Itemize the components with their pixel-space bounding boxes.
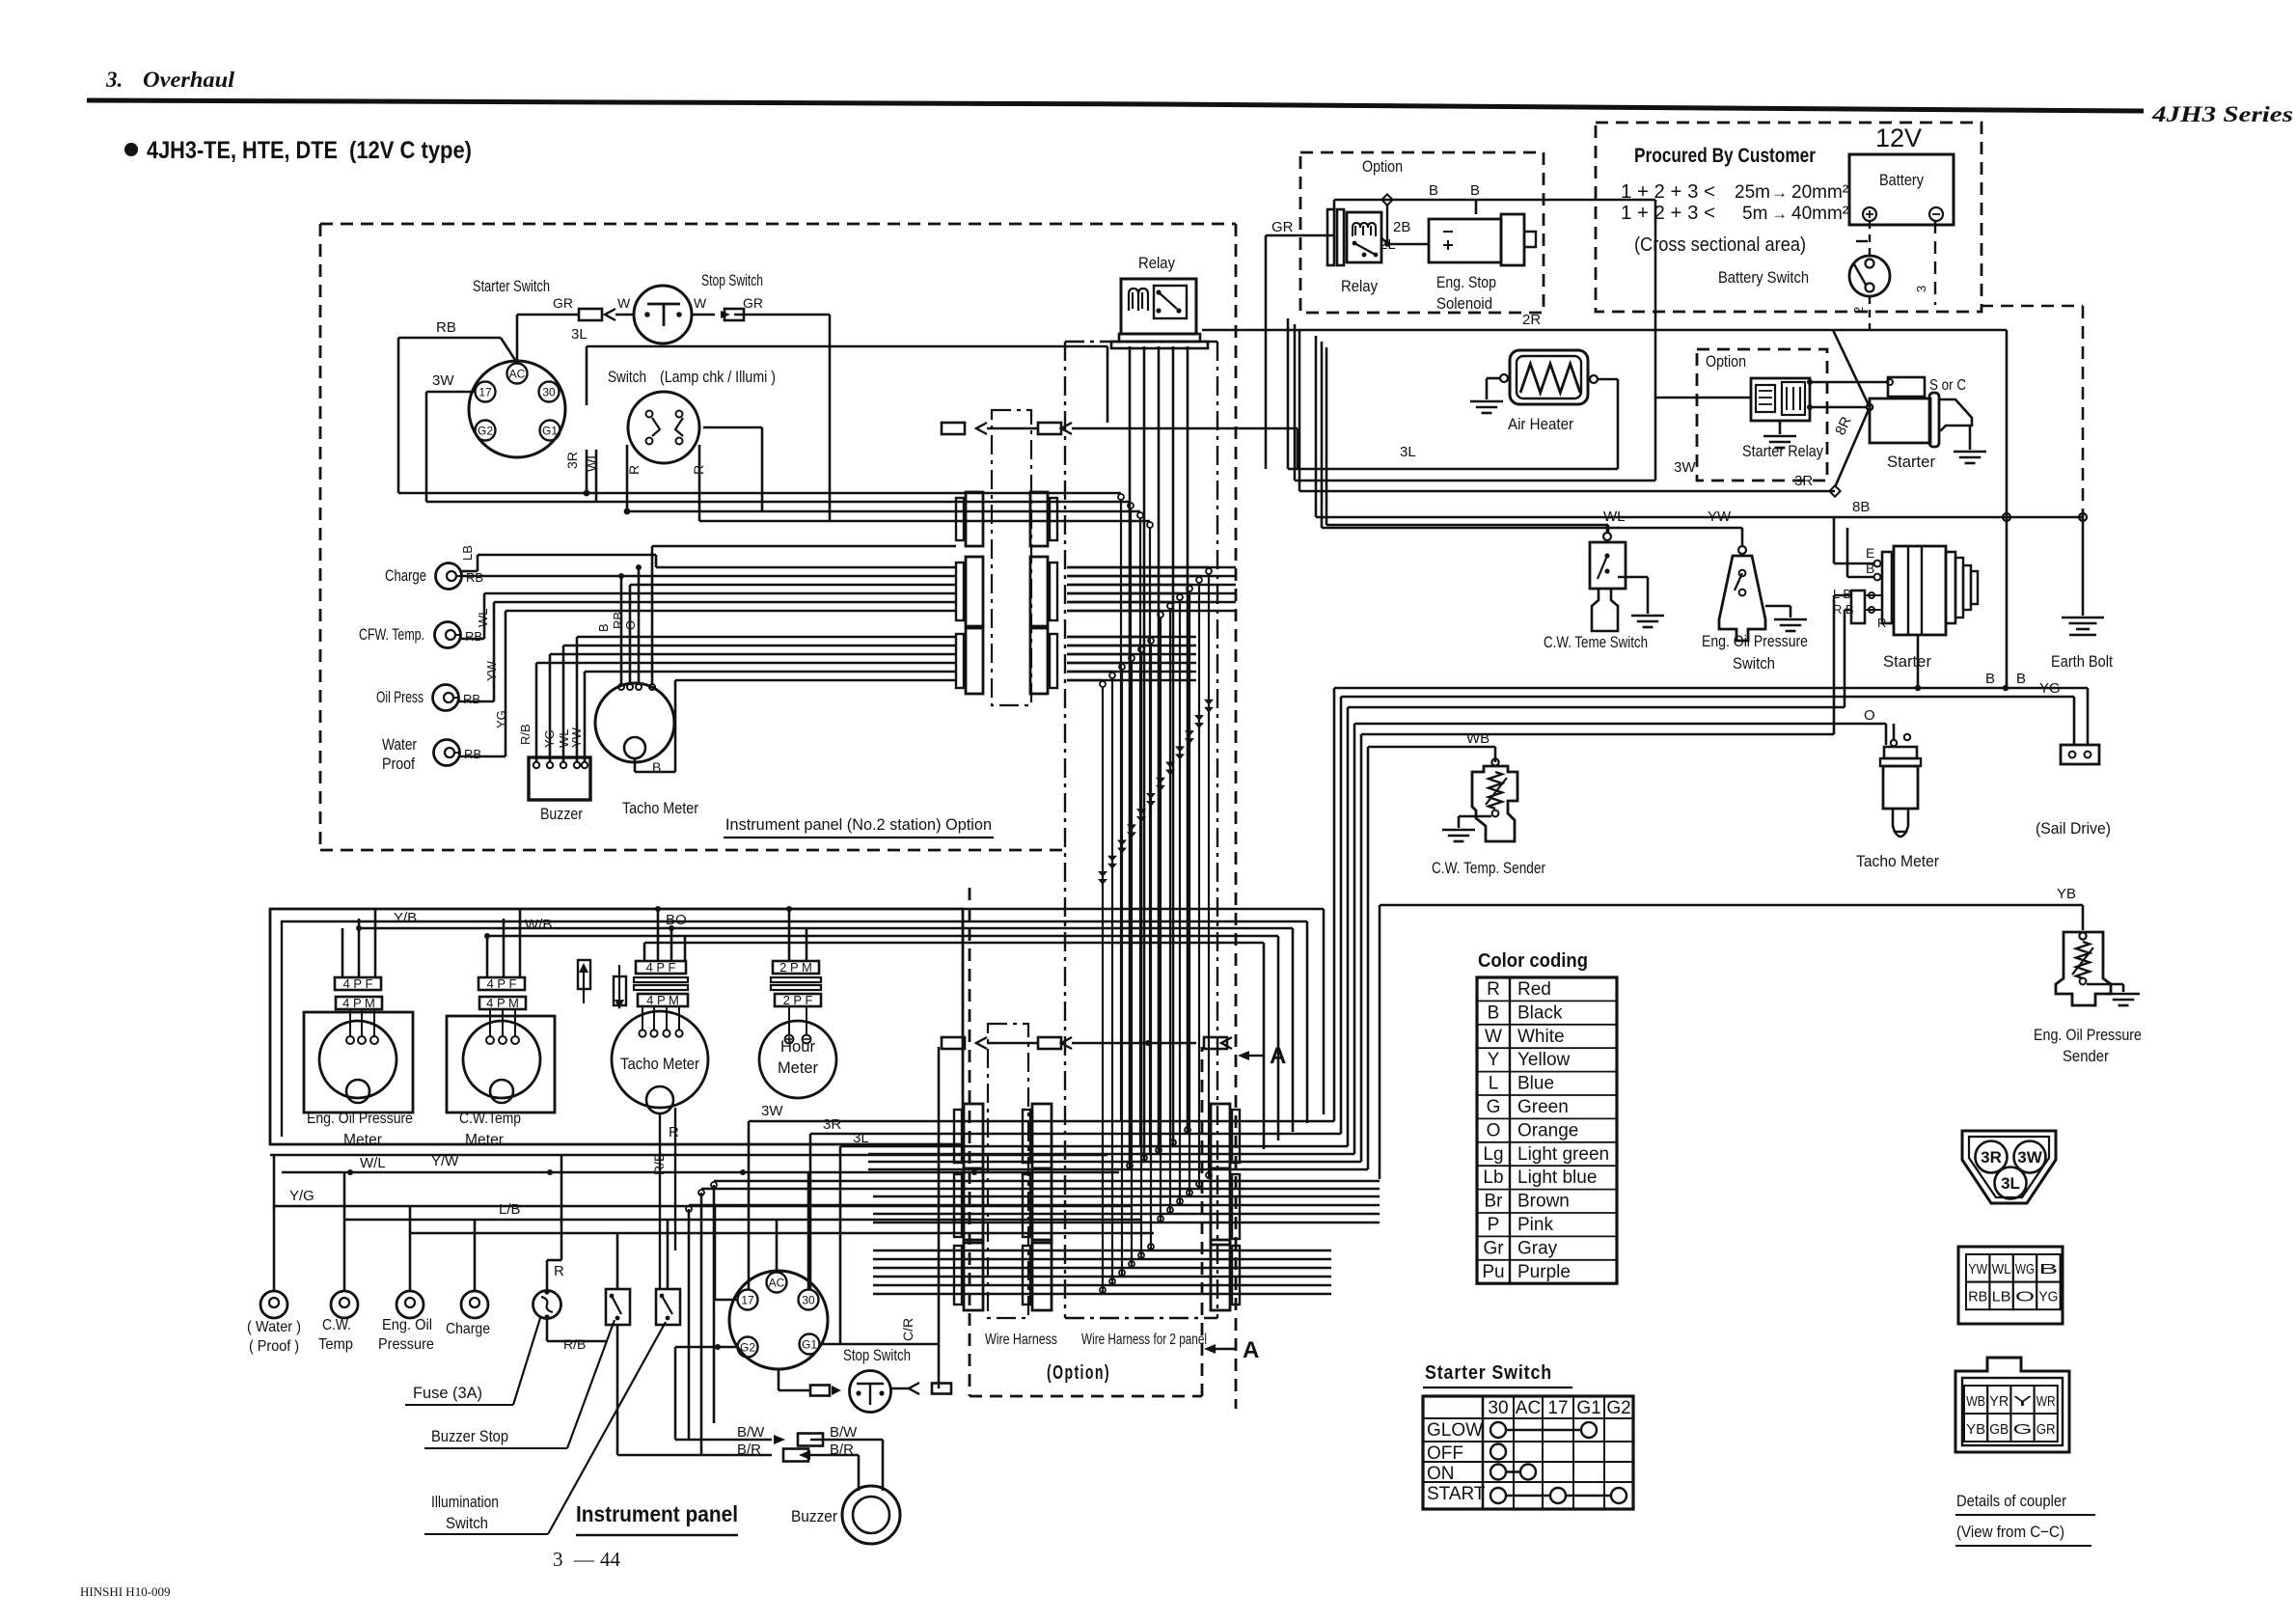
svg-text:3L: 3L [571,326,588,343]
svg-text:Illumination: Illumination [431,1493,499,1511]
svg-text:Black: Black [1517,1003,1563,1023]
svg-text:C/R: C/R [900,1318,916,1341]
svg-text:44: 44 [600,1548,621,1571]
svg-text:B: B [1470,182,1480,199]
svg-text:—: — [573,1548,595,1571]
svg-text:Red: Red [1517,979,1551,1000]
svg-text:Eng. Oil Pressure: Eng. Oil Pressure [2034,1026,2142,1044]
svg-text:A: A [1243,1337,1259,1363]
svg-text:Starter Switch: Starter Switch [473,277,550,295]
svg-text:B: B [596,623,611,632]
svg-text:4 P F: 4 P F [646,960,676,975]
svg-text:3R: 3R [823,1116,841,1133]
svg-text:GLOW: GLOW [1427,1420,1483,1441]
svg-text:Relay: Relay [1138,254,1175,272]
svg-text:20mm²: 20mm² [1791,182,1848,203]
svg-text:Earth Bolt: Earth Bolt [2051,652,2113,671]
svg-text:Instrument panel (No.2 statio: Instrument panel (No.2 station) Option [725,815,992,834]
svg-text:Pu: Pu [1482,1262,1504,1282]
svg-text:P: P [1488,1215,1500,1235]
svg-text:W: W [1485,1027,1502,1047]
svg-text:Starter: Starter [1883,652,1931,671]
svg-text:Orange: Orange [1517,1120,1578,1140]
svg-text:4JH3-TE, HTE, DTE: 4JH3-TE, HTE, DTE [147,137,338,164]
svg-text:AC: AC [1516,1398,1541,1418]
svg-text:Eng. Oil Pressure: Eng. Oil Pressure [1702,632,1808,650]
svg-text:Wire Harness for 2 panel: Wire Harness for 2 panel [1081,1332,1207,1348]
svg-text:OFF: OFF [1427,1443,1463,1464]
svg-text:START: START [1427,1484,1486,1504]
svg-text:Y: Y [2013,1393,2033,1410]
svg-text:Eng. Oil: Eng. Oil [382,1317,432,1333]
svg-text:Buzzer: Buzzer [540,805,583,823]
svg-text:RB: RB [1968,1289,1987,1305]
svg-text:S or C: S or C [1929,377,1966,394]
svg-text:Stop Switch: Stop Switch [701,271,763,289]
svg-text:Meter: Meter [343,1132,383,1148]
svg-text:Starter Switch: Starter Switch [1425,1362,1552,1384]
svg-text:GR: GR [743,295,763,311]
svg-text:E: E [1866,545,1874,561]
svg-text:GB: GB [1989,1421,2009,1438]
svg-text:G2: G2 [1606,1398,1630,1418]
svg-text:Air Heater: Air Heater [1508,415,1573,433]
svg-text:GR: GR [553,295,573,311]
svg-text:GR: GR [1271,219,1294,235]
svg-text:4 P F: 4 P F [343,976,373,991]
svg-text:Temp: Temp [318,1336,353,1353]
svg-text:Gr: Gr [1483,1238,1504,1258]
svg-text:Meter: Meter [778,1058,818,1077]
svg-text:3: 3 [1914,286,1928,292]
svg-text:YW: YW [1968,1261,1988,1278]
svg-text:WL: WL [476,609,490,628]
svg-text:Color coding: Color coding [1478,950,1588,972]
svg-text:Overhaul: Overhaul [143,68,235,92]
svg-text:AC: AC [769,1277,785,1290]
svg-text:3L: 3L [853,1130,869,1146]
svg-text:1 + 2 + 3 <: 1 + 2 + 3 < [1621,181,1715,203]
svg-text:Blue: Blue [1517,1074,1554,1094]
svg-text:17: 17 [478,386,492,399]
svg-text:O: O [2015,1289,2035,1305]
svg-text:Battery Switch: Battery Switch [1718,268,1809,287]
svg-text:2R: 2R [1522,312,1541,328]
svg-text:B/W: B/W [830,1424,858,1441]
svg-text:2 P M: 2 P M [779,960,812,975]
svg-text:R/B: R/B [563,1336,586,1352]
svg-text:RB: RB [436,319,456,336]
svg-text:( Water ): ( Water ) [247,1319,301,1335]
svg-text:1 + 2 + 3 <: 1 + 2 + 3 < [1621,203,1715,224]
svg-text:BO: BO [666,912,687,928]
svg-text:→: → [1771,205,1788,223]
svg-text:R/B: R/B [518,724,533,745]
svg-text:5m: 5m [1742,204,1767,224]
svg-text:Instrument panel: Instrument panel [576,1501,738,1526]
svg-text:Tacho Meter: Tacho Meter [620,1055,699,1073]
svg-text:B: B [2016,671,2026,687]
svg-text:Switch: Switch [608,368,646,386]
svg-text:YG: YG [2039,680,2061,697]
svg-text:Water: Water [382,735,417,754]
svg-text:12V: 12V [1875,124,1922,152]
svg-text:C.W.Temp: C.W.Temp [459,1111,521,1127]
svg-text:YW: YW [1708,508,1732,525]
svg-text:4 P M: 4 P M [486,996,519,1010]
svg-text:C.W. Temp. Sender: C.W. Temp. Sender [1432,859,1545,877]
svg-text:Starter: Starter [1887,453,1935,471]
svg-text:WB: WB [1466,730,1490,747]
svg-text:8B: 8B [1852,499,1870,515]
svg-text:LB: LB [1992,1289,2011,1305]
svg-text:Relay: Relay [1341,277,1378,295]
svg-text:G: G [1487,1097,1501,1117]
svg-text:B: B [2038,1261,2058,1278]
svg-text:B: B [1985,671,1995,687]
svg-text:Meter: Meter [465,1132,505,1148]
svg-text:3R: 3R [1794,473,1813,489]
svg-text:4 P M: 4 P M [646,993,679,1007]
svg-text:YG: YG [2038,1289,2058,1305]
svg-text:→: → [1771,183,1788,202]
svg-text:4 P F: 4 P F [487,976,517,991]
svg-text:Oil Press: Oil Press [376,688,424,706]
svg-text:C.W.: C.W. [322,1317,351,1333]
svg-text:R: R [626,465,642,475]
svg-text:Y: Y [1488,1050,1500,1070]
svg-text:3R: 3R [1981,1148,2002,1167]
svg-text:G1: G1 [802,1338,817,1352]
svg-text:Fuse (3A): Fuse (3A) [413,1384,482,1402]
svg-text:CFW. Temp.: CFW. Temp. [359,625,424,644]
svg-text:WL: WL [1603,508,1626,525]
svg-text:O: O [1864,707,1875,724]
svg-text:Procured By Customer: Procured By Customer [1634,145,1816,167]
svg-text:YB: YB [2057,886,2076,902]
svg-text:3W: 3W [761,1103,783,1119]
svg-text:L/B: L/B [499,1201,521,1218]
svg-text:O: O [1487,1120,1501,1140]
svg-text:WL: WL [1992,1261,2011,1278]
svg-text:4JH3 Series: 4JH3 Series [2151,102,2293,126]
svg-text:G2: G2 [478,425,493,438]
svg-text:Buzzer Stop: Buzzer Stop [431,1427,508,1445]
svg-text:GR: GR [2036,1421,2056,1438]
svg-text:3L: 3L [2001,1174,2020,1193]
svg-text:25m: 25m [1735,182,1770,203]
svg-text:B: B [1488,1003,1500,1023]
svg-text:40mm²: 40mm² [1791,204,1848,224]
svg-text:HINSHI H10-009: HINSHI H10-009 [80,1584,171,1599]
svg-text:Solenoid: Solenoid [1436,294,1492,313]
svg-text:L B: L B [1833,587,1851,601]
svg-text:(12V C type): (12V C type) [349,137,472,164]
svg-text:3W: 3W [2017,1148,2042,1167]
svg-text:3: 3 [553,1548,563,1571]
svg-text:30: 30 [802,1294,815,1307]
svg-text:WG: WG [2015,1261,2035,1278]
svg-text:30: 30 [1488,1398,1508,1418]
svg-text:(Lamp chk / Illumi ): (Lamp chk / Illumi ) [660,368,776,386]
svg-text:( Proof ): ( Proof ) [249,1338,299,1355]
svg-text:WR: WR [2036,1393,2056,1410]
svg-text:B: B [1429,182,1438,199]
svg-text:RB: RB [465,629,482,644]
svg-text:Green: Green [1517,1097,1569,1117]
svg-text:R: R [1487,979,1500,1000]
svg-text:Wire Harness: Wire Harness [985,1332,1057,1348]
svg-text:Stop Switch: Stop Switch [843,1346,911,1364]
svg-text:17: 17 [741,1294,754,1307]
svg-text:Sender: Sender [2063,1047,2109,1065]
svg-text:Y/B: Y/B [394,910,417,926]
svg-text:Y/W: Y/W [431,1153,459,1169]
svg-text:W/L: W/L [360,1155,386,1171]
svg-text:Charge: Charge [385,566,426,585]
svg-text:Light blue: Light blue [1517,1168,1597,1188]
svg-text:Option: Option [1706,352,1746,371]
svg-text:WB: WB [1966,1393,1985,1410]
svg-text:White: White [1517,1027,1565,1047]
svg-text:AC: AC [509,368,526,381]
svg-text:3.: 3. [105,68,123,92]
svg-text:C.W. Teme Switch: C.W. Teme Switch [1544,633,1648,651]
svg-text:Light green: Light green [1517,1144,1609,1165]
svg-text:Br: Br [1485,1192,1504,1212]
svg-text:(View from C−C): (View from C−C) [1956,1523,2064,1541]
svg-text:W: W [617,295,631,311]
svg-text:3W: 3W [432,372,454,389]
svg-text:3W: 3W [1674,459,1696,476]
svg-text:4 P M: 4 P M [342,996,375,1010]
svg-text:Option: Option [1362,157,1403,176]
svg-text:(Cross sectional area): (Cross sectional area) [1634,234,1806,256]
svg-text:30: 30 [542,386,556,399]
svg-text:Switch: Switch [446,1514,488,1532]
svg-text:LB: LB [460,545,475,561]
svg-text:3R: 3R [564,452,580,469]
svg-text:W/B: W/B [525,917,552,933]
svg-text:Y/G: Y/G [289,1188,314,1204]
svg-text:2B: 2B [1393,219,1410,235]
svg-text:Eng. Stop: Eng. Stop [1436,273,1496,291]
svg-text:B/W: B/W [737,1424,765,1441]
svg-text:Starter Relay: Starter Relay [1742,442,1823,460]
svg-text:17: 17 [1547,1398,1568,1418]
svg-text:Eng. Oil Pressure: Eng. Oil Pressure [307,1111,413,1127]
svg-text:Charge: Charge [446,1321,490,1337]
svg-text:R: R [669,1124,679,1140]
svg-text:W: W [694,295,707,311]
svg-text:RB: RB [463,692,480,706]
svg-text:YR: YR [1989,1393,2009,1410]
svg-text:YW: YW [484,660,499,681]
svg-text:G2: G2 [740,1341,755,1355]
svg-text:YB: YB [1966,1421,1985,1438]
svg-text:2 P F: 2 P F [783,993,813,1007]
svg-text:Yellow: Yellow [1517,1050,1571,1070]
svg-text:Proof: Proof [382,755,415,773]
svg-text:Pressure: Pressure [378,1336,434,1353]
svg-text:Tacho Meter: Tacho Meter [1856,852,1939,870]
svg-text:R: R [1877,616,1886,630]
svg-text:Battery: Battery [1879,171,1924,189]
svg-text:Pink: Pink [1517,1215,1553,1235]
svg-text:(Option): (Option) [1047,1362,1110,1384]
svg-text:G1: G1 [1576,1398,1600,1418]
svg-text:Brown: Brown [1517,1192,1570,1212]
svg-text:G: G [2013,1421,2033,1438]
svg-text:G1: G1 [542,425,558,438]
svg-text:L: L [1489,1074,1499,1094]
svg-text:Purple: Purple [1517,1262,1571,1282]
svg-text:Details of coupler: Details of coupler [1956,1492,2066,1510]
svg-text:Lb: Lb [1483,1168,1503,1188]
svg-text:2: 2 [1851,307,1866,314]
svg-text:ON: ON [1427,1464,1455,1484]
svg-text:Gray: Gray [1517,1238,1558,1258]
svg-text:(Sail Drive): (Sail Drive) [2036,819,2111,838]
svg-text:Buzzer: Buzzer [791,1507,837,1525]
svg-text:Lg: Lg [1483,1144,1503,1165]
svg-text:RB: RB [464,747,481,761]
svg-text:R: R [554,1263,564,1279]
svg-text:3L: 3L [1400,444,1416,460]
svg-text:Switch: Switch [1733,654,1775,673]
svg-text:Tacho Meter: Tacho Meter [622,799,698,817]
